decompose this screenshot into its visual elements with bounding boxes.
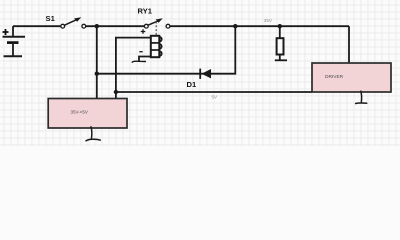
svg-text:DRIVER: DRIVER <box>325 74 344 80</box>
battery negative plate <box>7 41 19 44</box>
node junction diode branch top rail <box>233 24 237 28</box>
relay RY1 arm arrowhead <box>156 18 163 23</box>
resistor R body <box>277 38 284 54</box>
relay RY1 linkage dashed line <box>155 22 157 36</box>
svg-text:D1: D1 <box>187 80 197 89</box>
converter box 35V->5V <box>48 99 127 129</box>
wire battery to S1 <box>13 25 61 27</box>
svg-text:RY1: RY1 <box>138 6 153 15</box>
ground under battery <box>4 55 23 57</box>
wire battery negative stem <box>12 43 14 56</box>
relay coil body <box>151 36 160 57</box>
wire coil bottom to ground <box>139 57 151 62</box>
relay RY1 switch arm <box>148 21 158 25</box>
coil minus label <box>139 51 142 53</box>
wire resistor bottom <box>279 55 281 61</box>
switch S1 right contact <box>82 24 86 28</box>
ground stem under converter <box>91 126 92 139</box>
diode D1 triangle <box>202 69 212 78</box>
wire battery positive stem <box>12 26 14 37</box>
battery positive plate <box>3 36 26 38</box>
ground under resistor <box>275 59 287 61</box>
relay RY1 switch right contact <box>166 24 170 28</box>
coil plus label <box>141 29 146 34</box>
wire 5V line to driver <box>116 91 312 93</box>
relay coil divider 2 <box>151 49 160 51</box>
relay coil winding bumps <box>159 37 161 56</box>
relay RY1 switch left contact <box>144 24 148 28</box>
svg-text:5V: 5V <box>212 95 219 100</box>
node junction at x97 top rail <box>95 24 99 28</box>
relay coil divider 1 <box>151 42 160 44</box>
wire coil top to x116 and down to converter <box>116 38 151 98</box>
svg-text:35V: 35V <box>264 18 273 23</box>
diode D1 cathode bar <box>199 69 201 79</box>
ground bar under converter <box>86 139 101 141</box>
wire resistor top <box>279 26 281 38</box>
node junction diode line <box>95 72 99 76</box>
svg-text:35V->5V: 35V->5V <box>71 110 88 115</box>
wire vertical x97 top rail to converter <box>96 26 98 98</box>
node junction 5V line <box>114 90 118 94</box>
ground bar under driver <box>355 102 367 105</box>
node junction resistor branch top rail <box>278 24 282 28</box>
driver box <box>312 63 391 92</box>
wire S1 to RY1 contact <box>86 25 145 27</box>
switch S1 left contact <box>61 24 65 28</box>
wire RY1 contact to corner x349 <box>170 25 349 27</box>
battery BT plus label <box>3 29 9 35</box>
switch S1 arrowhead <box>74 17 81 22</box>
ground stem under driver <box>361 91 362 103</box>
switch S1 arm <box>65 20 77 26</box>
svg-text:S1: S1 <box>46 14 56 23</box>
wire diode line <box>97 26 236 73</box>
wire top rail corner down to driver <box>348 26 350 63</box>
ground under coil <box>132 61 146 62</box>
